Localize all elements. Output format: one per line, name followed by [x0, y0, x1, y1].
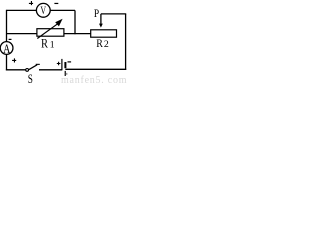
wire right vertical	[125, 14, 127, 70]
wire left vertical lower (ammeter to bottom-left corner)	[6, 54, 8, 70]
ammeter A1 circle	[0, 42, 13, 55]
battery polarity - label	[68, 61, 72, 63]
wire bottom middle (switch to battery)	[39, 69, 62, 71]
svg-text:2: 2	[104, 39, 109, 50]
switch S1 handle tick	[36, 63, 40, 65]
slider P wire (vertical tap)	[100, 14, 102, 24]
artifact mark below battery (gray hook)	[66, 73, 67, 75]
wire bottom right (right corner to battery)	[65, 68, 126, 70]
resistor R1 body (rheostat box)	[37, 29, 64, 37]
slider P arrowhead	[99, 24, 103, 28]
battery polarity + label	[57, 62, 61, 66]
artifact mark below battery (dark bar)	[65, 71, 66, 76]
switch S1 blade	[29, 65, 38, 70]
resistor R2 body	[91, 30, 117, 37]
wire top-left horizontal (top-left corner to voltmeter)	[7, 9, 37, 11]
voltmeter polarity - label	[54, 2, 58, 4]
battery BT1 negative short plate	[64, 62, 66, 68]
svg-text:A: A	[3, 43, 11, 56]
wire top horizontal (voltmeter to branch corner)	[50, 9, 75, 11]
svg-text:R: R	[96, 37, 103, 50]
svg-text:1: 1	[50, 40, 55, 51]
svg-text:V: V	[40, 4, 46, 17]
wire middle horizontal (left wire to R1)	[7, 33, 37, 35]
ammeter polarity - label	[9, 38, 12, 40]
ammeter polarity + label	[12, 58, 16, 62]
wire middle horizontal (R1 to R2)	[64, 33, 91, 35]
battery BT1 positive long plate	[61, 59, 63, 70]
wire bottom left (bottom-left corner to switch)	[6, 69, 26, 71]
switch S1 pivot circle	[26, 69, 29, 72]
svg-text:S: S	[28, 73, 33, 85]
wire top-right horizontal (slider P to right corner)	[101, 13, 126, 15]
svg-text:R: R	[41, 38, 48, 51]
voltmeter polarity + label	[29, 1, 33, 5]
svg-text:P: P	[94, 8, 99, 20]
wire voltmeter branch vertical stub	[74, 10, 76, 34]
svg-text:manfen5. com: manfen5. com	[61, 75, 127, 85]
voltmeter V1 circle	[36, 3, 50, 17]
resistor R1 rheostat diagonal arrow	[37, 23, 58, 38]
wire left vertical upper (top-left corner to ammeter)	[6, 10, 8, 42]
